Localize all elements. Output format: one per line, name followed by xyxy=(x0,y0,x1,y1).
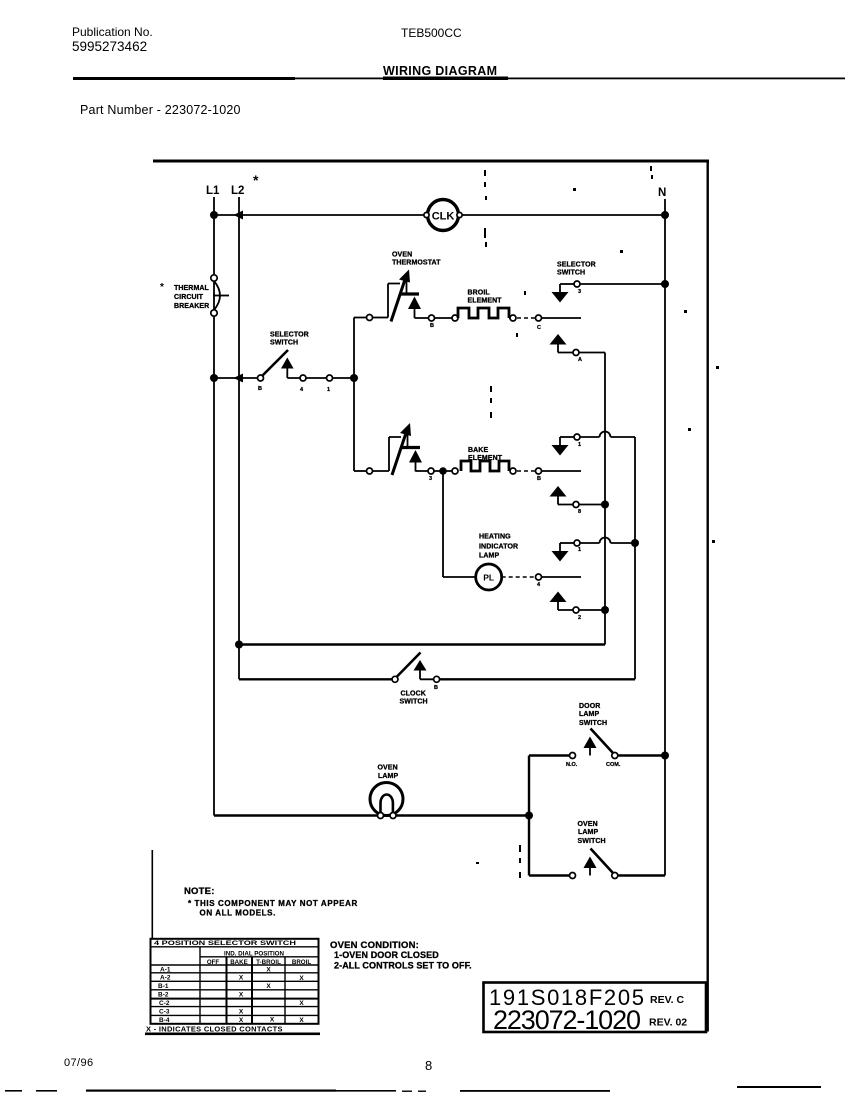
svg-text:BAKE: BAKE xyxy=(468,447,488,454)
svg-text:SELECTOR: SELECTOR xyxy=(270,332,309,339)
svg-text:DOOR: DOOR xyxy=(579,703,600,710)
svg-text:2: 2 xyxy=(578,615,581,621)
svg-text:07/96: 07/96 xyxy=(64,1057,94,1069)
svg-text:BREAKER: BREAKER xyxy=(174,303,209,310)
svg-text:ELEMENT: ELEMENT xyxy=(468,298,503,305)
svg-text:3: 3 xyxy=(578,289,581,295)
svg-text:N.O.: N.O. xyxy=(566,762,578,768)
svg-text:REV. 02: REV. 02 xyxy=(649,1017,687,1029)
svg-text:1: 1 xyxy=(327,387,330,393)
svg-text:A-2: A-2 xyxy=(160,975,171,982)
svg-text:4 POSITION SELECTOR SWITCH: 4 POSITION SELECTOR SWITCH xyxy=(154,940,297,947)
svg-text:X: X xyxy=(299,1017,304,1024)
svg-text:1-OVEN DOOR CLOSED: 1-OVEN DOOR CLOSED xyxy=(334,950,439,960)
svg-text:*: * xyxy=(160,282,164,293)
svg-text:B-2: B-2 xyxy=(158,992,169,999)
svg-text:X: X xyxy=(239,1008,244,1015)
svg-text:Publication No.: Publication No. xyxy=(72,25,153,39)
svg-text:8: 8 xyxy=(425,1058,432,1073)
svg-text:HEATING: HEATING xyxy=(479,534,511,541)
svg-text:B-1: B-1 xyxy=(158,983,169,990)
svg-text:Part Number - 223072-1020: Part Number - 223072-1020 xyxy=(80,103,241,117)
svg-text:T-BROIL: T-BROIL xyxy=(256,959,281,966)
svg-text:TEB500CC: TEB500CC xyxy=(401,26,462,40)
svg-text:INDICATOR: INDICATOR xyxy=(479,544,518,551)
svg-text:X: X xyxy=(266,983,271,990)
svg-text:L1: L1 xyxy=(206,185,220,197)
svg-text:X: X xyxy=(239,1017,244,1024)
svg-text:SWITCH: SWITCH xyxy=(578,838,606,845)
svg-text:OVEN: OVEN xyxy=(378,765,398,772)
svg-text:WIRING DIAGRAM: WIRING DIAGRAM xyxy=(383,64,497,78)
svg-text:X: X xyxy=(299,1000,304,1007)
svg-text:C: C xyxy=(537,325,541,331)
svg-text:LAMP: LAMP xyxy=(579,711,599,718)
svg-text:BROIL: BROIL xyxy=(468,290,491,297)
svg-text:X: X xyxy=(270,1016,275,1023)
svg-text:5995273462: 5995273462 xyxy=(72,39,147,54)
svg-text:* THIS COMPONENT MAY NOT APPEA: * THIS COMPONENT MAY NOT APPEAR xyxy=(188,899,358,908)
svg-text:PL: PL xyxy=(483,573,494,583)
svg-text:C-2: C-2 xyxy=(159,1000,170,1007)
svg-text:ELEMENT: ELEMENT xyxy=(468,455,503,462)
svg-text:B: B xyxy=(434,685,438,691)
svg-text:*: * xyxy=(253,172,259,188)
svg-text:CLK: CLK xyxy=(432,211,455,223)
svg-text:OVEN: OVEN xyxy=(392,252,412,259)
svg-text:X: X xyxy=(239,975,244,982)
svg-text:1: 1 xyxy=(578,547,581,553)
svg-text:LAMP: LAMP xyxy=(378,773,398,780)
svg-text:X: X xyxy=(299,975,304,982)
svg-text:LAMP: LAMP xyxy=(479,553,499,560)
svg-text:8: 8 xyxy=(578,509,581,515)
svg-text:ON ALL MODELS.: ON ALL MODELS. xyxy=(200,909,276,918)
svg-text:SWITCH: SWITCH xyxy=(400,699,428,706)
svg-text:LAMP: LAMP xyxy=(578,829,598,836)
svg-text:X: X xyxy=(266,966,271,973)
svg-text:N: N xyxy=(658,187,666,199)
svg-text:COM.: COM. xyxy=(606,762,621,768)
svg-text:X - INDICATES CLOSED CONTACTS: X - INDICATES CLOSED CONTACTS xyxy=(146,1025,283,1034)
svg-text:IND. DIAL POSITION: IND. DIAL POSITION xyxy=(224,951,285,958)
svg-text:BROIL: BROIL xyxy=(292,959,311,966)
svg-text:1: 1 xyxy=(578,442,581,448)
svg-text:B-4: B-4 xyxy=(159,1017,170,1024)
svg-text:CLOCK: CLOCK xyxy=(401,691,426,698)
svg-text:X: X xyxy=(239,992,244,999)
svg-text:A-1: A-1 xyxy=(160,966,171,973)
svg-text:3: 3 xyxy=(429,476,432,482)
svg-text:BAKE: BAKE xyxy=(230,959,248,966)
svg-text:B: B xyxy=(537,476,541,482)
svg-text:THERMOSTAT: THERMOSTAT xyxy=(392,260,441,267)
svg-text:REV. C: REV. C xyxy=(650,994,684,1006)
svg-text:A: A xyxy=(578,357,582,363)
svg-text:CIRCUIT: CIRCUIT xyxy=(174,294,204,301)
svg-text:OVEN: OVEN xyxy=(578,821,598,828)
svg-text:2-ALL CONTROLS SET TO OFF.: 2-ALL CONTROLS SET TO OFF. xyxy=(334,961,472,971)
svg-text:SWITCH: SWITCH xyxy=(557,270,585,277)
svg-text:SWITCH: SWITCH xyxy=(579,720,607,727)
svg-text:SELECTOR: SELECTOR xyxy=(557,262,596,269)
svg-text:SWITCH: SWITCH xyxy=(270,340,298,347)
svg-text:B: B xyxy=(258,386,262,392)
svg-text:L2: L2 xyxy=(231,185,244,197)
svg-text:THERMAL: THERMAL xyxy=(174,285,210,292)
svg-text:C-3: C-3 xyxy=(159,1008,170,1015)
svg-text:OFF: OFF xyxy=(207,959,220,966)
svg-text:B: B xyxy=(430,323,434,329)
svg-text:223072-1020: 223072-1020 xyxy=(493,1005,641,1035)
svg-text:NOTE:: NOTE: xyxy=(184,886,215,897)
